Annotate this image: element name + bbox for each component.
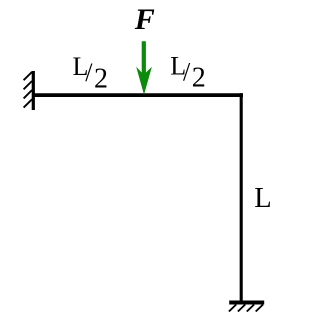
- svg-text:F: F: [134, 3, 155, 36]
- ground hatch 2: [238, 305, 245, 312]
- wall hatch 1: [24, 72, 32, 80]
- label L (column length): [254, 183, 271, 214]
- label F: [134, 3, 155, 36]
- ground hatch 3: [247, 305, 254, 312]
- svg-text:L: L: [254, 183, 271, 214]
- svg-text:2: 2: [94, 63, 108, 94]
- ground support at C: base bar: [229, 301, 264, 305]
- label L/2 (left half-span): [73, 52, 109, 94]
- wall hatch 3: [24, 90, 32, 98]
- wall hatch 2: [24, 81, 32, 89]
- force arrow F (green, downward at midspan): [136, 41, 152, 95]
- svg-text:2: 2: [192, 63, 206, 94]
- wall hatch 4: [24, 99, 32, 107]
- beam AB (horizontal member): [32, 93, 243, 97]
- ground hatch 1: [229, 305, 236, 312]
- column BC (vertical member): [240, 93, 243, 302]
- svg-text:/: /: [183, 58, 191, 87]
- fixed wall support at A: wall line: [32, 71, 35, 110]
- ground hatch 4: [256, 305, 263, 312]
- label L/2 (right half-span): [170, 51, 206, 93]
- svg-text:/: /: [85, 58, 93, 87]
